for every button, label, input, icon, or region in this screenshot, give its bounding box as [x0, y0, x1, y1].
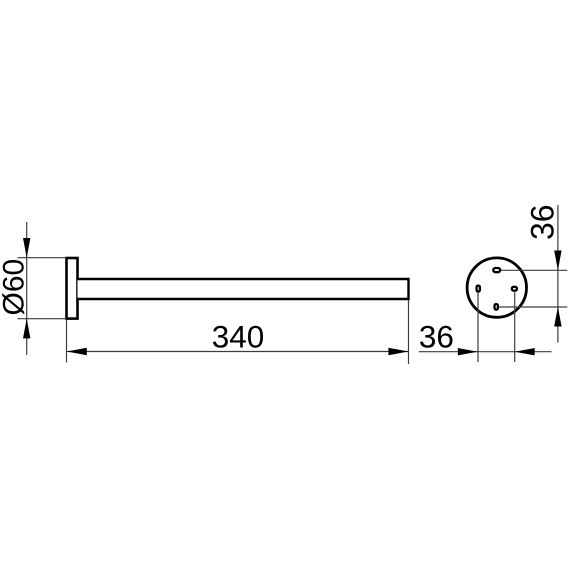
- arrow left-pointing bottom 36: [515, 348, 535, 355]
- extension line bottom of Ø60: [18, 318, 67, 320]
- svg-text:36: 36: [419, 319, 454, 355]
- extension line down from left slot: [477, 293, 479, 362]
- extension line from bottom slot: [499, 306, 567, 308]
- arrow down right 36: [554, 251, 561, 271]
- arrow up right 36: [554, 307, 561, 327]
- arrow left 340: [67, 348, 87, 355]
- dimension line Ø60: [26, 222, 28, 355]
- left slot: [477, 286, 480, 292]
- arrow down Ø60: [23, 238, 30, 258]
- right slot: [512, 287, 517, 291]
- wall plate (side view): [67, 258, 78, 319]
- svg-text:36: 36: [525, 204, 561, 240]
- top slot: [493, 268, 500, 272]
- dimension line right 36: [557, 205, 559, 343]
- bottom slot: [495, 304, 498, 310]
- dimension line bottom 36: [419, 351, 552, 353]
- arrow right-pointing bottom 36: [458, 348, 478, 355]
- extension line top of Ø60: [18, 257, 67, 259]
- arrow right 340: [388, 348, 408, 355]
- extension line down from right slot: [514, 292, 516, 362]
- svg-text:340: 340: [212, 319, 265, 355]
- extension line from top slot: [501, 269, 567, 271]
- towel bar (side view): [78, 279, 409, 299]
- wall plate circle (rear view): [467, 258, 526, 317]
- svg-text:Ø60: Ø60: [0, 259, 30, 316]
- arrow up Ø60: [23, 319, 30, 339]
- dimension line 340: [67, 351, 409, 353]
- extension line left of 340: [66, 320, 68, 363]
- extension line right of 340: [408, 300, 410, 364]
